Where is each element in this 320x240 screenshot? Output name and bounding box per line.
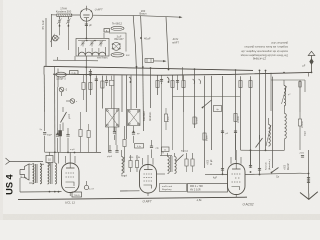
wire mains riser [308,150,310,194]
wire right inner box [271,79,305,81]
coil L1 (crossed circle) [53,35,59,41]
wire drop x259.5 [259,70,261,174]
capacitor C24 [221,130,224,132]
resistor R7 [239,81,242,88]
resistor R19 [135,161,138,168]
resistor R14 + label [203,133,206,140]
output transformer T2 primary [33,164,34,184]
wire lower bus [53,72,312,75]
wire drop x182.6 [182,67,184,80]
antenna symbol [311,56,313,73]
capacitor C30 [301,155,304,157]
triode V2b (small circle) [70,99,75,104]
switch S1 slash [61,112,67,123]
capacitor C12 [95,78,98,80]
wire drop x211.5 [211,76,213,150]
resistor R8 [249,81,252,88]
trimmer capacitor C7 in T1 [100,41,103,43]
box AFJ40 [104,29,110,32]
wire US4 stub [49,163,51,167]
wire drop x300 [299,80,301,112]
choke T3 winding [48,163,50,184]
wire top bus [93,15,181,17]
capacitor C16 [66,134,69,136]
wire right mid links [241,149,285,151]
resistor R3 [101,81,104,88]
capacitor C4 grid [85,23,88,25]
coil L5 power winding [285,114,287,139]
wire drop x161.5 [161,75,163,84]
wire osc box [109,33,126,52]
wire drop x96 [95,76,97,153]
tube V4 pins [65,156,67,163]
wire drop x240.5 [240,76,242,150]
trimmer capacitor C6 in T1 [91,41,94,43]
wire drop x265.5 [265,71,267,151]
wire drop x131 [130,75,132,109]
wire rail A [133,15,136,66]
wire top links T2 [29,163,33,166]
wire drop x126.5 [126,75,128,139]
wire drop x204.5 [204,76,206,168]
capacitor C26 [249,165,252,167]
arrow top bus end [179,16,182,18]
wire under-tube link [53,59,98,62]
wire upper bus [44,66,253,70]
node tube-coil junction [86,38,88,40]
resistor R4 [156,81,159,88]
output transformer T2 secondary [40,164,41,184]
oscillator coil L2 (crossed circle) [112,42,120,50]
resistor R20 [185,159,188,166]
box C19 [135,144,144,149]
capacitor C15 30pF [57,133,59,135]
padder capacitor C1 (hatched bar) [57,14,72,17]
wire drop x58 [57,69,59,73]
grid-cap arrow 2 [129,77,131,82]
capacitor C29 mains [307,177,310,179]
electrolytic capacitor C31 [59,131,62,137]
wire heater bus [205,173,228,175]
resistor R1 [82,83,85,90]
wire drop x84 [85,56,87,112]
electrolytic C14 [44,112,46,131]
wire inside T1 [78,40,106,42]
output transformer T2 core [35,164,37,183]
wire padder drops [59,17,61,20]
box C23 4u [214,106,222,112]
tube V1 UAF7 envelope [80,9,92,21]
oscillator coil L3 [284,86,286,106]
wire bottom feed [49,152,51,155]
wire tube V1 cathode drop [85,21,87,38]
wire drop x194.5 [194,69,196,128]
wire rail C [166,17,169,70]
box R16 10 [46,156,53,163]
small box ZF [145,59,154,63]
tube V5 pins [230,157,232,164]
capacitor C17 [113,131,116,133]
trimmer capacitor C3 [67,19,70,21]
resistor R11 [123,140,126,147]
wire left rail to bottom [43,66,45,74]
wire drop x235.5 [235,70,237,160]
switch S2 slash [203,100,212,108]
resistor R9 [299,82,301,88]
wire to coil L1 [58,37,59,39]
ferrite core F1 (oval) [111,26,124,30]
box small 110 [109,80,114,85]
wire rail B [141,16,143,67]
wire drop x136.5 [136,67,138,108]
wire bottom row 1 [20,191,62,193]
trimmer capacitor C5 in T1 [82,41,85,43]
wire drop x90 [89,69,91,95]
resistor R13 + label [193,117,196,124]
capacitor C21 [108,150,111,152]
wire drop x172.5 [172,75,174,110]
wire drop x143 [142,67,145,131]
grid-cap arrow 1 [167,77,169,82]
wire mid link 96 [173,96,241,98]
electrolytic capacitor C10 (oval) [56,72,66,77]
wire drop x122 [121,75,123,112]
resistor R24 + label [234,114,237,122]
resistor R6 [182,81,185,88]
mains plug V symbol [300,192,318,200]
node antenna-bus [311,72,313,74]
wire drop x222.5 [222,76,224,174]
wire T4 tops [167,153,169,157]
grid-cap arrow 3 [193,79,195,84]
resistor R23 + label [164,114,167,122]
coil T1 windings [79,52,106,55]
ferrite core F2 (oval) [111,53,124,57]
wire right bottom link [245,196,247,198]
tube V3 UAF7 envelope [140,165,157,194]
boxed label MW/HV [188,184,228,193]
switch S5 mains [272,168,279,173]
cathode resistor R17 box [72,192,82,197]
wire drop x250.5 [250,76,252,168]
wire drop x177.5 [177,75,179,90]
label und Regelung [160,184,187,192]
node bus joins [136,66,138,68]
wire long bottom bus [18,197,247,199]
switch S4 slash [256,138,263,148]
switch S3 slash [176,155,184,163]
wire drop x272.5 [272,77,274,168]
wire drop x102 [101,76,103,109]
wire AVC + arrow [154,60,165,62]
wire drop x150.5 [150,68,152,108]
box R12 1k [162,147,170,152]
node x90 [90,75,92,77]
wire grid feed [72,14,80,16]
resistor R15 + label [298,119,301,126]
wire grid V3 [124,158,126,162]
wire left rail 2 [51,14,53,47]
wire antenna-left rail [45,18,47,67]
IF transformer T4 right winding [175,157,177,174]
box 0.1uF [70,71,79,75]
wire drop x157.5 [157,75,159,95]
terminal clip left [6,158,10,165]
triode V2a (small circle) [59,87,64,92]
loudspeaker LS [20,164,29,180]
capacitor C25 [234,130,237,132]
resistor R21 [191,159,194,166]
capacitor C11 [89,71,92,73]
IF transformer T4 core [170,156,172,172]
wire bottom-mid bus [45,151,101,153]
note paragraph (rotated) [240,41,288,58]
IF transformer T1 box [76,39,109,57]
capacitor C20 [150,145,153,147]
node bottom [54,191,56,193]
capacitor C18 [133,131,135,133]
wire drop x308 [307,73,309,77]
resistor R22 [87,131,90,138]
wire TA link [160,155,172,157]
tube V5 UCH envelope [228,164,246,195]
crossed box switch SW-B [128,110,141,126]
resistor R10 [79,130,82,137]
coil L4 [269,124,271,146]
crossed box switch SW-A [106,109,120,128]
IF transformer T4 left winding [168,157,170,174]
small circle e57 [84,185,88,189]
node 40pF junction [140,37,142,39]
capacitor C28 [258,168,261,170]
resistor R2 [89,83,92,90]
wire V3 bottom link [120,190,140,192]
coil L6 [122,157,124,174]
wire drop x183.5 [183,76,185,113]
capacitor C27 [221,168,224,170]
trimmer capacitor C2 [58,19,61,21]
wire mid-left drops [54,67,56,75]
resistor R5 [171,81,174,88]
wire drop x114 [113,75,115,131]
tube V3 pins [142,158,144,165]
capacitor C22 [115,150,118,152]
resistor R18 [129,161,132,168]
tube V4 UL output [62,163,80,193]
capacitor C13 [105,80,108,82]
